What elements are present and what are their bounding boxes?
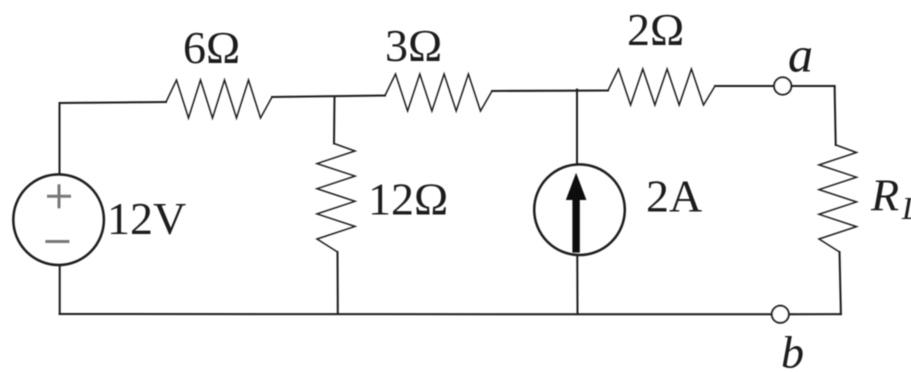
- svg-text:R: R: [870, 170, 899, 221]
- svg-text:a: a: [788, 27, 813, 83]
- svg-text:b: b: [781, 327, 804, 372]
- svg-text:12Ω: 12Ω: [368, 174, 448, 225]
- svg-text:6Ω: 6Ω: [183, 22, 240, 73]
- svg-text:L: L: [901, 190, 911, 226]
- svg-text:3Ω: 3Ω: [385, 20, 442, 71]
- svg-text:2A: 2A: [646, 171, 702, 222]
- svg-text:12V: 12V: [107, 193, 186, 244]
- svg-text:2Ω: 2Ω: [627, 4, 684, 55]
